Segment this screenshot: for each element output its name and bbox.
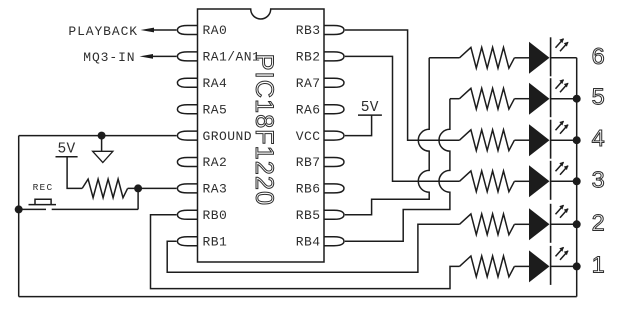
wire resistor to LED D4	[514, 139, 529, 141]
wire LED D3 cathode to bus	[551, 180, 577, 182]
pin RA5 (left)	[177, 105, 197, 114]
wire LED D4 cathode to bus	[551, 139, 577, 141]
junction LED 2 on cathode bus	[573, 220, 581, 228]
pin RA0 (left)	[177, 26, 197, 35]
wire pin VCC to 5V bar	[345, 115, 372, 136]
svg-text:RA0: RA0	[203, 23, 228, 38]
LED D4	[529, 120, 568, 159]
junction LED 1 on cathode bus	[573, 262, 581, 270]
junction LED 3 on cathode bus	[573, 177, 581, 185]
junction LED 4 on cathode bus	[573, 136, 581, 144]
wire GROUND pin to left rail	[19, 135, 177, 137]
svg-text:VCC: VCC	[296, 129, 321, 144]
wire LED D6 cathode to bus	[551, 57, 577, 59]
wire resistor to LED D1	[514, 265, 529, 267]
ground symbol	[93, 151, 113, 162]
wire LED D1 cathode to bus	[551, 265, 577, 267]
svg-text:PLAYBACK: PLAYBACK	[68, 24, 138, 39]
wire resistor to LED D3	[514, 180, 529, 182]
wire bottom rail	[19, 296, 577, 298]
svg-text:PIC18F1220: PIC18F1220	[250, 54, 278, 206]
pin RB5 (right)	[324, 210, 344, 219]
pin RA2 (left)	[177, 158, 197, 167]
ground symbol stub	[101, 136, 103, 152]
svg-text:3: 3	[592, 166, 605, 192]
pin RA7 (right)	[324, 78, 344, 87]
svg-text:6: 6	[592, 43, 605, 69]
wire 5V bar down to resistor R1	[67, 157, 82, 189]
svg-text:RA5: RA5	[203, 102, 228, 117]
pin VCC (right)	[324, 131, 344, 140]
wire resistor to LED D2	[514, 223, 529, 225]
power symbol 5V (VCC) bar	[358, 114, 382, 116]
pushbutton REC actuator	[35, 199, 51, 204]
wire pin RB3 to LED row 4	[345, 30, 460, 140]
LED D5	[529, 78, 568, 117]
svg-text:4: 4	[592, 125, 605, 151]
svg-text:5: 5	[592, 84, 605, 110]
resistor R5 (LED 4)	[460, 130, 515, 151]
wire junction down to switch	[137, 188, 139, 209]
wire RB5 row-6 horizontal	[429, 57, 459, 59]
svg-text:RA4: RA4	[203, 76, 228, 91]
junction at ground symbol	[98, 132, 106, 140]
pin RB0 (left)	[177, 210, 197, 219]
wire pin RB5 to LED row 6 (hops over rows 4 and 3)	[345, 58, 429, 215]
wire PLAYBACK arrow to pin RA0	[152, 29, 177, 31]
svg-text:1: 1	[592, 251, 605, 277]
resistor R3 (LED 2)	[460, 214, 515, 235]
wire LED D2 cathode to bus	[551, 223, 577, 225]
wire resistor to LED D5	[514, 98, 529, 100]
wire right vertical LED cathode bus	[576, 58, 578, 297]
pin GROUND (left)	[177, 131, 197, 140]
svg-text:RB1: RB1	[203, 234, 228, 249]
LED D6	[529, 37, 568, 76]
wire MQ3-IN arrow to pin RA1/AN1	[151, 55, 177, 57]
svg-text:5V: 5V	[361, 100, 379, 116]
pin RB3 (right)	[324, 26, 344, 35]
junction on left rail	[15, 205, 23, 213]
svg-text:5V: 5V	[57, 142, 75, 158]
resistor R6 (LED 5)	[460, 88, 515, 109]
LED D2	[529, 204, 568, 243]
pin RB7 (right)	[324, 158, 344, 167]
svg-text:RB6: RB6	[296, 182, 321, 197]
pin RB4 (right)	[324, 237, 344, 246]
svg-text:RB4: RB4	[296, 234, 321, 249]
pin RA4 (left)	[177, 78, 197, 87]
svg-text:MQ3-IN: MQ3-IN	[83, 50, 135, 65]
svg-text:2: 2	[592, 209, 605, 235]
svg-text:GROUND: GROUND	[203, 129, 253, 144]
pin RB2 (right)	[324, 52, 344, 61]
wire resistor R1 to pin RA3	[128, 187, 177, 189]
pin RA1/AN1 (left)	[177, 52, 197, 61]
wire RB4 row-5 horizontal	[450, 98, 460, 100]
power symbol 5V (left) bar	[56, 156, 78, 158]
resistor R1 (pull-up for RA3)	[82, 179, 127, 198]
arrow into RA1/AN1	[140, 54, 154, 59]
wire resistor to LED D6	[514, 57, 529, 59]
resistor R2 (LED 1)	[460, 256, 515, 277]
svg-text:RB2: RB2	[296, 50, 321, 65]
pin RB1 (left)	[177, 237, 197, 246]
LED D1	[529, 246, 568, 285]
wire pin RB0 to LED row 1	[151, 215, 460, 289]
svg-text:RB7: RB7	[296, 155, 321, 170]
wire pin RB4 to LED row 5 (hops over rows 4 and 3)	[345, 99, 450, 242]
pin RA3 (left)	[177, 184, 197, 193]
svg-text:RA3: RA3	[203, 182, 228, 197]
svg-text:RA2: RA2	[203, 155, 228, 170]
resistor R4 (LED 3)	[460, 171, 515, 192]
wire LED D5 cathode to bus	[551, 98, 577, 100]
wire left vertical rail	[18, 136, 20, 297]
svg-text:RA6: RA6	[296, 102, 321, 117]
pin RA6 (right)	[324, 105, 344, 114]
svg-text:RA7: RA7	[296, 76, 321, 91]
svg-text:RA1/AN1: RA1/AN1	[203, 50, 261, 65]
wire switch contact to junction	[52, 208, 138, 210]
wire left rail to switch contact	[19, 208, 46, 210]
pushbutton REC contact bar	[29, 204, 57, 206]
svg-text:RB5: RB5	[296, 208, 321, 223]
svg-text:REC: REC	[33, 182, 54, 193]
arrow into RA0	[141, 28, 155, 33]
wire pin RB2 to LED row 3	[345, 56, 460, 181]
wire pin RB1 to LED row 2	[167, 224, 459, 272]
svg-text:RB3: RB3	[296, 23, 321, 38]
LED D3	[529, 161, 568, 200]
resistor R7 (LED 6)	[460, 47, 515, 68]
pin RB6 (right)	[324, 184, 344, 193]
junction node RA3/REC	[134, 184, 142, 192]
IC U1 PIC18F1220 body	[198, 9, 325, 262]
svg-text:RB0: RB0	[203, 208, 228, 223]
junction LED 5 on cathode bus	[573, 95, 581, 103]
